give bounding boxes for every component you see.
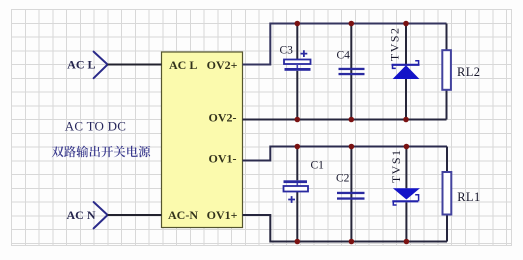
wire OV1- to top rail of lower section [243,147,448,161]
power module U1 (AC-DC converter block) [162,52,243,228]
svg-text:OV2+: OV2+ [207,58,238,72]
capacitor C1 (polarized) [284,147,325,242]
svg-text:C2: C2 [336,173,350,185]
svg-text:C1: C1 [311,160,325,172]
svg-text:C3: C3 [280,45,294,57]
wire OV2- bottom rail [243,119,447,121]
port arrow AC L [94,52,108,79]
junction dots top rail OV2 [295,21,409,27]
svg-text:AC-N: AC-N [168,208,198,222]
port arrow AC N [94,202,108,228]
svg-text:C4: C4 [337,50,351,62]
svg-text:OV2-: OV2- [209,111,237,125]
svg-text:OV1+: OV1+ [207,208,238,222]
svg-text:AC L: AC L [67,58,95,72]
svg-text:OV1-: OV1- [209,152,237,166]
junction dots OV1- rail [295,144,410,150]
wire AC L input [108,64,162,66]
junction dots OV1+ rail [295,239,410,245]
svg-text:TVS2: TVS2 [387,26,401,61]
TVS diode TVS1 [389,147,420,242]
TVS diode TVS2 [387,24,419,120]
wire OV2+ to top rail [243,24,447,65]
svg-text:TVS1: TVS1 [389,148,403,183]
capacitor C3 (polarized) [280,24,311,120]
svg-text:AC N: AC N [67,208,96,222]
junction dots OV2- rail [295,117,409,123]
svg-text:AC L: AC L [169,58,197,72]
capacitor C2 [336,147,365,242]
wire OV1+ to bottom rail of lower section [243,215,448,242]
svg-text:RL1: RL1 [457,190,480,204]
label 双路输出开关电源 (dual output switching power supply) [52,146,151,158]
capacitor C4 [337,24,365,120]
svg-text:RL2: RL2 [457,65,480,79]
svg-text:AC TO DC: AC TO DC [65,119,126,134]
resistor RL1 [443,147,481,242]
resistor RL2 [442,24,480,120]
wire AC N input [108,214,162,216]
